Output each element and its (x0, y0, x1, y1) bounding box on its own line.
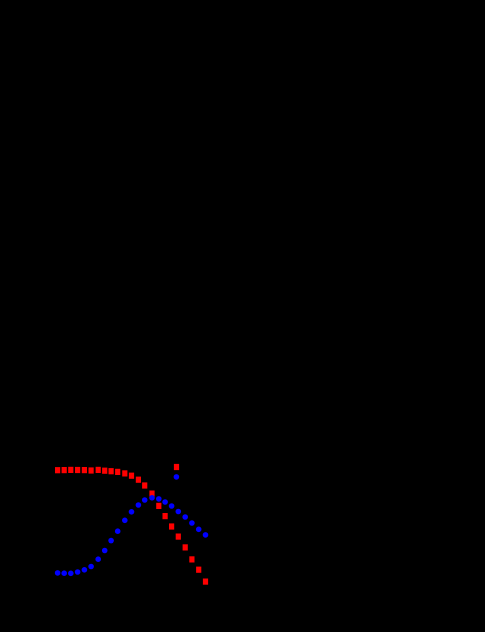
red series (squares) (55, 467, 208, 585)
legend red marker (174, 464, 179, 470)
legend blue marker (174, 474, 180, 480)
blue series (circles) (55, 495, 209, 576)
